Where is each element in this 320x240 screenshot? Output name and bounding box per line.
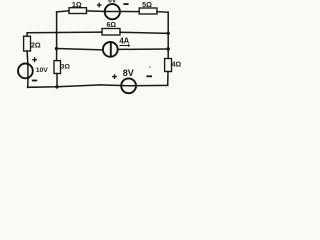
svg-text:2Ω: 2Ω	[31, 40, 41, 49]
wire top rail chord through 6V source	[106, 11, 120, 13]
minus sign of 10V source	[32, 80, 37, 82]
svg-text:10V: 10V	[36, 67, 49, 74]
wire rail C right of 4A source to right branch	[118, 48, 168, 50]
wire top rail right segment to corner	[157, 11, 168, 14]
current direction arrow under 4A label	[119, 44, 130, 47]
scan speck	[149, 67, 151, 68]
wire rail B right of 6Ω to right branch	[120, 32, 168, 33]
wire bottom rail chord through 8V source and to right corner	[100, 84, 168, 87]
resistor R4 4Ω (right branch, vertical)	[165, 59, 172, 72]
current source I1 4A circle (rail C)	[103, 42, 118, 57]
wire left branch chord through 10V source	[27, 63, 29, 78]
svg-text:1Ω: 1Ω	[72, 0, 82, 9]
wire left branch top corner to R2	[26, 33, 28, 36]
wire top rail between R1 and 6V source	[87, 10, 107, 13]
wire rail B (from left branch top corner to 6Ω)	[27, 31, 102, 34]
wire right branch to R4 top	[167, 49, 169, 59]
resistor R2 2Ω (left branch, vertical)	[24, 36, 31, 51]
voltage source U1 6V circle (top rail)	[105, 4, 120, 19]
voltage source U2 10V circle (left branch)	[18, 64, 33, 79]
minus sign of 8V source	[146, 75, 152, 77]
wire top rail between 6V source and R5	[120, 11, 139, 13]
wire left branch 10V bottom to bottom-left corner	[27, 79, 29, 88]
svg-text:5Ω: 5Ω	[142, 0, 152, 9]
wire bottom rail left segment	[28, 85, 100, 87]
voltage source U3 8V circle (bottom rail)	[121, 78, 136, 93]
resistor R1 1Ω (top rail)	[69, 8, 87, 14]
node dot: middle branch joins bottom rail	[55, 85, 58, 88]
plus sign of 6V source	[97, 3, 102, 8]
wire left branch R2 bottom to 10V source top	[26, 51, 29, 63]
node dot: rail C joins middle branch	[55, 47, 58, 50]
plus sign of 8V source	[112, 74, 117, 79]
resistor R5 5Ω (top rail)	[139, 8, 157, 14]
node dot: rail B joins right branch	[167, 32, 170, 35]
node dot: rail C joins right branch	[167, 47, 170, 50]
wire right branch upper (corner down to node B1)	[167, 12, 169, 33]
svg-text:6V: 6V	[108, 0, 117, 5]
svg-text:3Ω: 3Ω	[61, 64, 71, 71]
svg-text:4Ω: 4Ω	[172, 61, 182, 68]
svg-text:4A: 4A	[119, 36, 129, 45]
wire middle branch from top corner down to R3	[56, 12, 58, 60]
resistor R6 6Ω (rail B)	[102, 29, 120, 36]
wire rail C left segment (middle branch to 4A source)	[57, 49, 103, 50]
svg-text:8V: 8V	[123, 68, 134, 78]
svg-text:6Ω: 6Ω	[106, 22, 116, 29]
wire top rail left segment	[57, 11, 69, 12]
node dot: rail B crosses middle branch	[56, 32, 58, 34]
current source I1 internal bar	[110, 42, 112, 56]
minus sign of 6V source	[123, 3, 128, 5]
wire right branch R4 bottom to corner	[167, 72, 169, 86]
wire right branch middle (node B1 to node C1)	[167, 33, 169, 49]
wire middle branch R3 bottom to bottom rail	[56, 74, 58, 87]
resistor R3 3Ω (middle branch, vertical)	[54, 61, 61, 74]
plus sign of 10V source	[32, 57, 37, 62]
